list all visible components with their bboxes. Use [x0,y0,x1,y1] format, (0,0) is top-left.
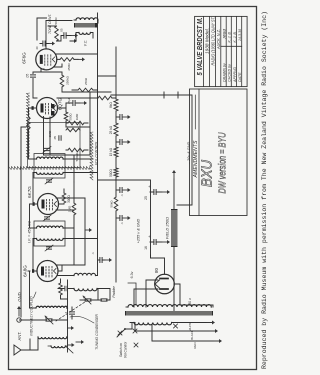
V3 plate resistor [64,108,90,127]
V2 cathode resistor 300 ohm [59,189,72,204]
ground terminal [17,306,21,322]
tube V1 6A8G [32,261,58,282]
svg-text:BLACK: BLACK [190,330,194,340]
label VOL CONTROL [95,141,99,165]
IF transformer 2 box [34,154,65,178]
mains lead WHITE [174,321,215,332]
detector compartment box [28,123,81,168]
handwritten BXU [199,160,216,187]
diode detector leads [44,117,91,156]
dropping resistor 25k [109,123,118,136]
svg-text:DRAWN by: DRAWN by [223,62,227,82]
IFT2 primary [33,173,65,175]
V1 grid cap wire [28,271,30,308]
power transformer primary winding [130,323,174,325]
grid resistor 250k [41,72,111,92]
svg-text:40: 40 [35,46,39,50]
switch on mains [117,323,132,338]
ground arrow V3 cathode [80,101,87,105]
cap .05 detector [53,136,61,141]
IFT1 primary [33,239,65,241]
V2 plate wire to IFT2 [33,173,37,205]
IF transformer 1 box [34,221,65,246]
label 230 volt [188,298,192,307]
V1 osc grid components [58,286,70,291]
svg-text:CHCKD by: CHCKD by [228,63,232,82]
svg-text:Reproduced by Radio Museum wit: Reproduced by Radio Museum with permissi… [261,11,268,369]
svg-text:14-3-38: 14-3-38 [238,29,242,41]
svg-text:15 kΩ: 15 kΩ [109,147,113,156]
label +255v GND [137,218,141,243]
padder capacitor [98,289,110,302]
svg-text:+: + [147,185,152,188]
oscillator coil plate winding [70,273,98,275]
V4 cathode resistor 250 ohm [57,57,85,70]
shield sawtooth top [27,93,30,159]
ground arrow at 25uF [162,190,170,194]
IFT2 trimmer 1 [45,178,53,184]
title block row DATE [238,29,242,82]
tube V3 6Q7G [32,98,58,119]
svg-text:250kΩ: 250kΩ [66,75,70,85]
IFT2 trimmer 2 [43,147,51,153]
svg-text:25 kΩ: 25 kΩ [109,125,113,134]
credit line: Reproduced by Radio Museum [261,11,268,369]
coupling cap .05 [26,69,45,98]
mains lead BLACK [135,323,218,340]
V4 plate wire [37,18,72,49]
svg-text:V.C.: V.C. [84,40,88,47]
tube V2 6K7G [33,194,59,215]
antenna coil primary [21,337,68,350]
label IF 455 KC [28,221,32,243]
label 6Q7G [58,97,63,110]
label switch on vol control [119,342,128,358]
extra ground arrow near ant coil [68,326,75,330]
svg-text:6K7G: 6K7G [27,186,32,198]
svg-text:TONE CONT.: TONE CONT. [48,14,52,34]
filter cap 16uF [144,235,162,250]
svg-text:80: 80 [154,268,159,274]
svg-text:.05: .05 [60,28,64,33]
svg-text:DW version = BYU: DW version = BYU [217,132,229,193]
svg-text:Padder: Padder [112,285,116,297]
title block row DRAWN by [223,29,227,82]
label V.C. [84,40,88,47]
IFT2 secondary [33,157,65,159]
label TUNING CONDENSER [70,314,99,350]
svg-text:VOL CONTROL: VOL CONTROL [95,141,99,165]
dropping resistor 500 ohm [109,168,118,177]
label 6K7G [27,186,32,198]
svg-text:APPRVD: APPRVD [233,67,237,83]
label TONE CONT [48,14,52,34]
svg-text:8kΩ: 8kΩ [109,102,113,108]
svg-text:16: 16 [144,246,148,250]
svg-text:FIELD 250Ω: FIELD 250Ω [165,217,170,239]
field coil 250 ohm [171,179,178,311]
gang ground arrow [76,340,84,344]
power transformer secondary winding [126,305,211,307]
svg-text:Vol Control: Vol Control [124,342,128,358]
label -20v GND [187,142,191,166]
svg-text:K. J. B.: K. J. B. [233,31,237,42]
label 80 [154,268,159,274]
bias divider resistor 250 [72,77,98,92]
svg-text:DATE: DATE [238,72,242,82]
tone control cap .05 [57,28,72,41]
title block text: RADIO (1936) LTD QUAY ST [211,16,216,65]
title block text: 5 VALVE BRDCST M. [195,17,204,75]
B+ rail y116 [115,47,117,282]
V2 grid cap wire [30,204,35,228]
border frame [9,7,257,370]
svg-text:Switch on: Switch on [119,343,123,357]
svg-text:.1: .1 [120,194,124,197]
svg-text:2MΩ: 2MΩ [48,130,52,137]
svg-text:RED: RED [193,342,197,348]
label GND [17,292,22,301]
IFT1 trimmer 1 [45,245,53,251]
svg-text:6A8G: 6A8G [23,265,28,277]
V2 screen riser [56,198,85,210]
title block outline [195,16,248,86]
svg-text:6.3v: 6.3v [130,271,134,278]
svg-text:.1: .1 [65,311,69,314]
tone control resistor [48,17,78,41]
svg-text:500kΩ: 500kΩ [75,152,79,162]
tube V4 6F6G [36,49,57,70]
svg-text:300Ω: 300Ω [67,195,71,203]
IFT2 feed leads to rails [65,159,98,173]
B+ rail y98 [98,13,117,276]
AVC bus top [21,127,26,317]
label FIELD 250 [165,217,170,239]
svg-text:1938 Model.: 1938 Model. [205,28,210,54]
svg-text:5 VALVE BRDCST M.: 5 VALVE BRDCST M. [195,17,204,75]
wire rectifier filament to B+ [151,255,214,307]
svg-text:25: 25 [144,196,148,200]
label Padder [112,285,116,297]
label 2M ohm [48,130,52,137]
diode load resistor 500k [66,148,88,161]
title block text: 1938 MODEL [205,28,210,54]
AVC resistor [68,182,76,265]
svg-text:.1: .1 [120,222,124,225]
dropping resistor 15k [109,147,118,157]
svg-text:– 20v & GND: – 20v & GND [187,142,191,166]
svg-text:250Ω: 250Ω [67,63,71,71]
svg-text:JWBdl: JWBdl [223,29,227,40]
svg-text:.05: .05 [53,136,57,141]
tone cap 40 [35,41,55,50]
wire transformer to rectifier plate [134,280,158,307]
title block text: AUCK N.Z. [216,29,221,50]
svg-text:230 v.: 230 v. [188,298,192,307]
rail bypass cap c [116,140,131,145]
oscillator tuning gang section 2 [80,289,98,304]
V1 plate riser [33,239,70,276]
svg-text:250Ω: 250Ω [84,77,88,85]
output transformer primary [74,23,98,28]
screen bypass cap .1 a [116,216,131,225]
handwritten DW version = BYU [217,132,229,193]
svg-text:.1: .1 [91,252,95,255]
label 6F6G [22,52,27,64]
svg-text:BXU: BXU [199,160,216,187]
shield sawtooth bottom [90,132,93,180]
tuning cap ganged dash link [56,300,88,321]
screen bus V4 [54,54,98,67]
osc cap .1 [65,307,75,319]
speaker voice coil winding [76,33,93,39]
amendments header [193,95,199,178]
dropping resistor 8k [109,99,118,111]
IFT1 trimmer 2 [43,215,51,221]
screen bypass cap .1 b [116,188,131,197]
AVC filter resistor in box [66,128,80,131]
label ANT [17,331,22,340]
tuning gang section 1 [20,316,68,324]
svg-text:K. J. B.: K. J. B. [228,31,232,42]
label 6A8G [23,265,28,277]
title block row APPRVD [233,31,237,83]
mains lead RED [152,325,222,349]
V3 cathode cap 25uF [58,97,81,108]
svg-text:RADIO (1936) LTD QUAY ST.: RADIO (1936) LTD QUAY ST. [211,16,216,65]
amendments box [190,89,248,216]
power transformer core [125,311,213,316]
rail bypass cap d [116,115,131,120]
svg-text:500Ω: 500Ω [109,169,113,177]
bias line [111,92,192,205]
output transformer secondary [74,18,98,23]
B+ line from rectifier [150,180,152,258]
svg-text:2MΩ: 2MΩ [68,205,72,212]
svg-text:TUNING CONDENSER: TUNING CONDENSER [95,314,99,350]
rectifier tube 80 [155,274,175,294]
V3 plate load resistor [57,96,116,100]
B+ riser at filter [98,179,150,181]
svg-text:AUCK. N.Z.: AUCK. N.Z. [216,29,221,50]
svg-text:50kΩ: 50kΩ [110,200,114,208]
svg-text:ANT.: ANT. [17,331,22,340]
filter cap 25uF [144,185,162,200]
V1 screen to rail [56,265,74,271]
svg-text:500Ω: 500Ω [69,113,73,121]
svg-text:INDUCTIVELY COUPLED: INDUCTIVELY COUPLED [30,296,34,336]
volume control resistor 1M [66,113,88,125]
screen dropping resistor 50k [110,197,118,211]
svg-text:.05: .05 [26,74,30,79]
shield dashed box [9,167,90,170]
ground bus left [68,280,75,352]
oscillator coil grid winding [70,289,101,291]
antenna coil primary tap winding [48,346,73,353]
V1 cathode resistor [59,279,68,299]
svg-text:+: + [147,235,152,238]
osc anode bypass cap [91,252,112,263]
AVC line to detector [74,92,90,182]
ground arrow at 16uF [162,240,170,244]
antenna coil secondary [30,306,68,308]
V3 grid cap wire [27,108,34,159]
svg-text:6F6G: 6F6G [22,52,27,64]
fuse X marks [133,324,178,347]
ground arrow end of field line [172,170,176,179]
label INDUCTIVELY COUPLED [30,292,37,336]
IFT1 secondary [33,226,65,228]
ground bus mid [74,198,92,265]
antenna symbol [14,339,30,355]
VC ground arrow [70,38,77,43]
IFT1 feed leads to rails [65,228,98,239]
svg-text:+255 v & GND: +255 v & GND [137,218,141,243]
svg-text:1MΩ: 1MΩ [75,113,79,120]
title block row CHCKD by [228,31,232,82]
heater winding 6.3v label [128,271,136,305]
svg-text:WHITE: WHITE [188,322,192,331]
